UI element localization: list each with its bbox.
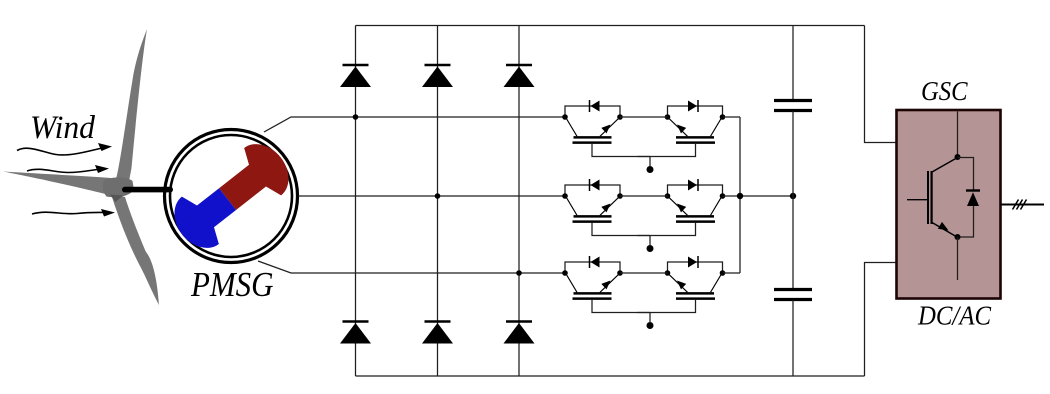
wire row3 mid link xyxy=(620,272,668,274)
GSC IGBT Q7 gate bar xyxy=(927,171,929,224)
diode D1 xyxy=(340,65,371,87)
node phase B / leg2 xyxy=(435,193,441,199)
gate node row2 xyxy=(647,245,654,252)
wind arrow 3 xyxy=(32,209,115,217)
capacitor C1 plate 1 xyxy=(774,99,812,102)
diode D6 xyxy=(504,322,535,344)
turbine blade left xyxy=(3,172,117,198)
IGBT cell S3b xyxy=(638,256,726,313)
GSC IGBT Q7 body bar xyxy=(930,171,932,224)
GSC IGBT Q7 collector diagonal xyxy=(932,158,958,173)
gate stub row2 xyxy=(649,236,651,246)
capacitor bus wire middle xyxy=(792,111,794,289)
svg-text:GSC: GSC xyxy=(921,76,968,106)
midpoint bus xyxy=(739,117,741,273)
svg-text:PMSG: PMSG xyxy=(190,265,273,304)
wire row3 to midpoint bus xyxy=(723,272,741,274)
diode D3 xyxy=(504,65,535,87)
node phase C / leg3 xyxy=(516,270,522,276)
grid slash 1 xyxy=(1013,200,1019,210)
turbine blade down xyxy=(111,194,159,306)
GSC IGBT Q7 gate lead xyxy=(907,199,927,201)
IGBT cell S1b xyxy=(638,100,726,157)
capacitor C1 plate 2 xyxy=(774,109,812,112)
gate stub row1 xyxy=(649,157,651,167)
diode D2 xyxy=(422,65,453,87)
GSC IGBT Q7 emitter arrow xyxy=(938,222,951,234)
svg-text:DC/AC: DC/AC xyxy=(917,301,992,331)
grid slash 3 xyxy=(1021,200,1027,210)
capacitor bus wire top xyxy=(792,26,794,101)
rotor magnet blue half xyxy=(164,175,246,258)
PMSG inner circle xyxy=(170,135,292,257)
wire GSC to grid xyxy=(1001,204,1045,206)
rectifier leg 2 xyxy=(437,26,439,377)
svg-text:Wind: Wind xyxy=(30,110,95,146)
wire DC+ to GSC xyxy=(865,26,897,143)
wire row1 to midpoint bus xyxy=(723,116,741,118)
wire phase C xyxy=(258,261,565,273)
wire phase B xyxy=(298,195,565,197)
grid slash 2 xyxy=(1017,200,1023,210)
turbine blade up xyxy=(115,29,148,185)
diode D4 xyxy=(340,322,371,344)
GSC converter box xyxy=(897,110,1001,299)
wire DC- to GSC xyxy=(865,263,897,377)
rectifier leg 3 xyxy=(518,26,520,377)
node capacitor midpoint xyxy=(790,193,796,199)
wire row2 to capacitor midpoint xyxy=(723,195,794,197)
GSC diode D7 triangle xyxy=(967,192,979,206)
shaft xyxy=(122,187,173,193)
capacitor C2 plate 2 xyxy=(774,298,812,301)
GSC IGBT Q7 emitter diagonal xyxy=(932,223,957,238)
GSC top node xyxy=(955,154,961,160)
node bus / row2 xyxy=(737,193,743,199)
rotor magnet red half xyxy=(209,134,299,223)
PMSG outer circle xyxy=(165,130,298,263)
DC- rail xyxy=(356,375,865,377)
capacitor C2 plate 1 xyxy=(774,288,812,291)
GSC internal collector wire xyxy=(957,112,959,158)
diode D5 xyxy=(422,322,453,344)
wire row2 mid link xyxy=(620,195,668,197)
IGBT cell S3a xyxy=(562,256,650,313)
wind arrow 2 xyxy=(27,165,109,173)
wire phase A (PMSG to converter) xyxy=(264,117,565,132)
GSC bottom node xyxy=(955,234,961,240)
GSC freewheel diode D7 branch wire xyxy=(958,158,974,238)
capacitor bus wire bottom xyxy=(792,300,794,376)
gate stub row3 xyxy=(649,313,651,323)
GSC internal emitter wire xyxy=(957,237,959,280)
IGBT cell S2b xyxy=(638,179,726,236)
IGBT cell S1a xyxy=(562,100,650,157)
IGBT cell S2a xyxy=(562,179,650,236)
turbine hub xyxy=(103,177,134,197)
rectifier leg 1 xyxy=(355,26,357,377)
GSC diode D7 cathode bar xyxy=(966,189,980,191)
DC+ rail xyxy=(356,25,865,27)
node phase A / leg1 xyxy=(353,114,359,120)
wind arrow 1 xyxy=(17,143,112,155)
wire row1 mid link xyxy=(620,116,668,118)
gate node row3 xyxy=(647,322,654,329)
gate node row1 xyxy=(647,166,654,173)
